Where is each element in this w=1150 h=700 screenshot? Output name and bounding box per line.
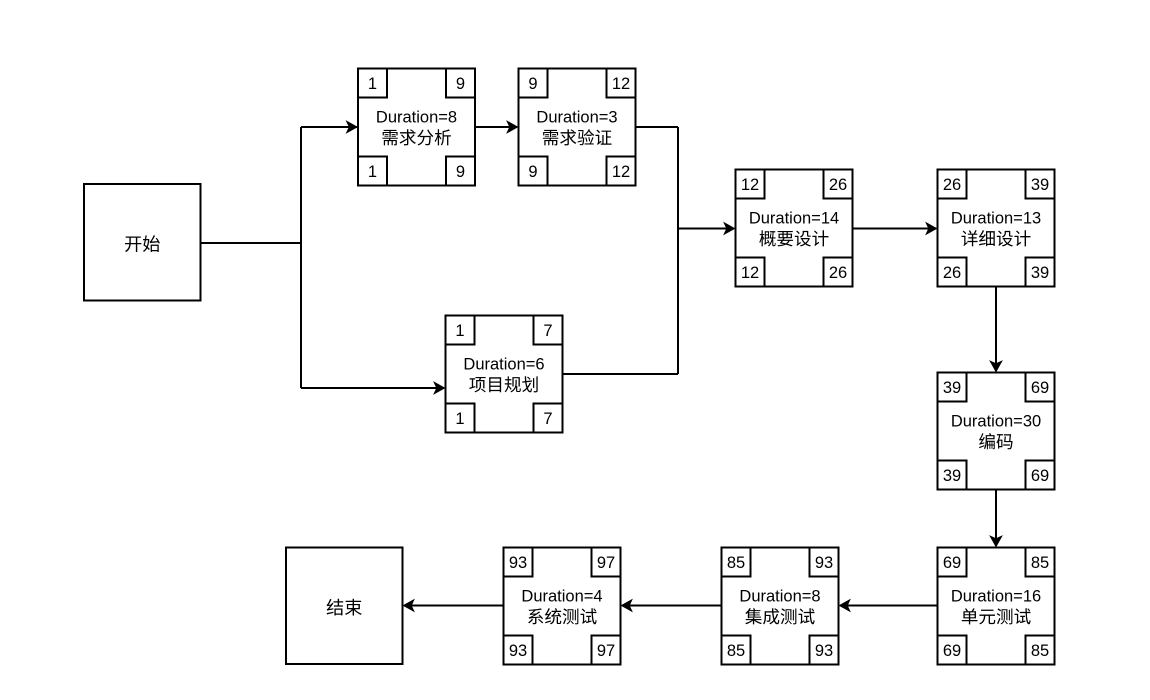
svg-text:12: 12	[741, 264, 759, 282]
wire split to 需求分析	[301, 126, 357, 128]
svg-text:39: 39	[943, 467, 961, 485]
LF box value 7 of 项目规划	[534, 404, 563, 433]
svg-text:Duration=8: Duration=8	[739, 588, 820, 606]
EF box value 85 of 单元测试	[1026, 548, 1055, 577]
activity node 详细设计	[938, 170, 1055, 287]
ES box value 1 of 项目规划	[446, 316, 475, 345]
arrowhead into 需求验证	[506, 120, 518, 134]
ES box value 39 of 编码	[938, 373, 967, 402]
activity node 集成测试	[722, 548, 839, 665]
svg-text:85: 85	[1031, 554, 1049, 572]
label 详细设计	[962, 230, 1031, 246]
main box 概要设计	[736, 170, 853, 287]
label 单元测试	[962, 608, 1031, 624]
svg-text:Duration=3: Duration=3	[536, 109, 617, 127]
label 集成测试	[745, 608, 814, 624]
svg-text:7: 7	[543, 322, 552, 340]
svg-text:97: 97	[597, 554, 615, 572]
ES box value 69 of 单元测试	[938, 548, 967, 577]
EF box value 7 of 项目规划	[534, 316, 563, 345]
svg-text:26: 26	[829, 264, 847, 282]
wire 集成测试 to 系统测试	[622, 605, 722, 607]
arrowhead into 单元测试	[989, 535, 1003, 547]
ES box value 9 of 需求验证	[519, 69, 548, 98]
arrowhead into 编码	[989, 360, 1003, 372]
svg-text:Duration=13: Duration=13	[951, 210, 1041, 228]
activity node 编码	[938, 373, 1055, 490]
svg-text:93: 93	[509, 554, 527, 572]
EF box value 93 of 集成测试	[810, 548, 839, 577]
svg-text:1: 1	[455, 410, 464, 428]
main box 集成测试	[722, 548, 839, 665]
wire merge vertical	[677, 127, 679, 374]
svg-text:12: 12	[741, 176, 759, 194]
svg-text:97: 97	[597, 642, 615, 660]
arrowhead into 系统测试	[621, 599, 633, 613]
svg-text:69: 69	[943, 642, 961, 660]
EF box value 39 of 详细设计	[1026, 170, 1055, 199]
svg-text:93: 93	[815, 554, 833, 572]
ES box value 12 of 概要设计	[736, 170, 765, 199]
svg-text:Duration=4: Duration=4	[521, 588, 602, 606]
svg-text:9: 9	[456, 163, 465, 181]
svg-text:39: 39	[1031, 264, 1049, 282]
ES box value 26 of 详细设计	[938, 170, 967, 199]
svg-text:69: 69	[1031, 379, 1049, 397]
activity node 需求验证	[519, 69, 636, 186]
svg-text:12: 12	[612, 75, 630, 93]
EF box value 26 of 概要设计	[824, 170, 853, 199]
activity node 项目规划	[446, 316, 563, 433]
svg-text:26: 26	[943, 264, 961, 282]
svg-text:7: 7	[543, 410, 552, 428]
svg-text:Duration=8: Duration=8	[376, 109, 457, 127]
main box 单元测试	[938, 548, 1055, 665]
LS box value 9 of 需求验证	[519, 157, 548, 186]
label 系统测试	[528, 608, 597, 624]
label 项目规划	[469, 376, 537, 392]
arrowhead into 详细设计	[925, 222, 937, 236]
activity node 概要设计	[736, 170, 853, 287]
svg-text:Duration=14: Duration=14	[749, 210, 839, 228]
node 开始	[84, 184, 201, 301]
svg-text:85: 85	[727, 554, 745, 572]
wire 详细设计 to 编码	[995, 287, 997, 372]
ES box value 93 of 系统测试	[504, 548, 533, 577]
LS box value 93 of 系统测试	[504, 636, 533, 665]
wire 需求验证 out east	[636, 126, 679, 128]
svg-text:9: 9	[456, 75, 465, 93]
svg-text:85: 85	[727, 642, 745, 660]
LS box value 26 of 详细设计	[938, 258, 967, 287]
wire 系统测试 to 结束	[404, 605, 504, 607]
LF box value 39 of 详细设计	[1026, 258, 1055, 287]
main box 详细设计	[938, 170, 1055, 287]
wire split to 项目规划	[301, 387, 444, 389]
node 结束	[286, 548, 403, 665]
label 需求分析	[382, 129, 450, 145]
LF box value 69 of 编码	[1026, 461, 1055, 490]
svg-text:26: 26	[943, 176, 961, 194]
activity node 单元测试	[938, 548, 1055, 665]
svg-text:9: 9	[528, 163, 537, 181]
LF box value 93 of 集成测试	[810, 636, 839, 665]
main box 需求验证	[519, 69, 636, 186]
LS box value 39 of 编码	[938, 461, 967, 490]
label 编码	[979, 433, 1012, 449]
main box 项目规划	[446, 316, 563, 433]
main box 编码	[938, 373, 1055, 490]
activity node 系统测试	[504, 548, 621, 665]
svg-text:Duration=16: Duration=16	[951, 588, 1041, 606]
LS box value 1 of 项目规划	[446, 404, 475, 433]
svg-text:1: 1	[455, 322, 464, 340]
svg-text:93: 93	[509, 642, 527, 660]
arrowhead into 项目规划	[433, 381, 445, 395]
wire 单元测试 to 集成测试	[840, 605, 938, 607]
wire 项目规划 out east	[563, 373, 679, 375]
ES box value 1 of 需求分析	[358, 69, 387, 98]
wire 编码 to 单元测试	[995, 490, 997, 547]
arrowhead into 集成测试	[839, 599, 851, 613]
LF box value 9 of 需求分析	[446, 157, 475, 186]
label 需求验证	[543, 129, 612, 145]
svg-text:1: 1	[368, 163, 377, 181]
main box 需求分析	[358, 69, 475, 186]
arrowhead into 需求分析	[346, 120, 358, 134]
LS box value 1 of 需求分析	[358, 157, 387, 186]
LF box value 97 of 系统测试	[592, 636, 621, 665]
activity node 需求分析	[358, 69, 475, 186]
EF box value 12 of 需求验证	[607, 69, 636, 98]
LF box value 85 of 单元测试	[1026, 636, 1055, 665]
LF box value 26 of 概要设计	[824, 258, 853, 287]
svg-text:1: 1	[368, 75, 377, 93]
svg-text:Duration=6: Duration=6	[463, 356, 544, 374]
EF box value 69 of 编码	[1026, 373, 1055, 402]
LS box value 69 of 单元测试	[938, 636, 967, 665]
label 概要设计	[759, 230, 828, 246]
svg-text:26: 26	[829, 176, 847, 194]
wire 需求分析 to 需求验证	[476, 126, 518, 128]
wire 开始 to split junction	[201, 242, 302, 244]
svg-text:69: 69	[1031, 467, 1049, 485]
wire 概要设计 to 详细设计	[853, 228, 937, 230]
svg-text:39: 39	[943, 379, 961, 397]
LS box value 12 of 概要设计	[736, 258, 765, 287]
wire merge to 概要设计	[678, 228, 734, 230]
EF box value 97 of 系统测试	[592, 548, 621, 577]
svg-text:Duration=30: Duration=30	[951, 413, 1041, 431]
wire split junction vertical	[300, 127, 302, 388]
arrowhead into 概要设计	[723, 222, 735, 236]
EF box value 9 of 需求分析	[446, 69, 475, 98]
LF box value 12 of 需求验证	[607, 157, 636, 186]
arrowhead into 结束	[403, 599, 415, 613]
LS box value 85 of 集成测试	[722, 636, 751, 665]
svg-text:12: 12	[612, 163, 630, 181]
svg-text:69: 69	[943, 554, 961, 572]
svg-text:93: 93	[815, 642, 833, 660]
main box 系统测试	[504, 548, 621, 665]
svg-text:85: 85	[1031, 642, 1049, 660]
ES box value 85 of 集成测试	[722, 548, 751, 577]
svg-text:39: 39	[1031, 176, 1049, 194]
svg-text:9: 9	[528, 75, 537, 93]
